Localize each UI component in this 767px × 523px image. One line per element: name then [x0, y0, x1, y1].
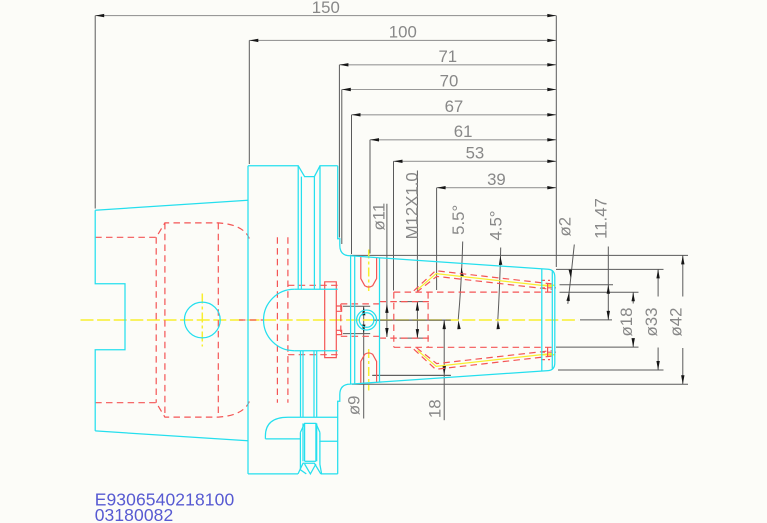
svg-text:71: 71	[438, 47, 457, 66]
svg-text:11.47: 11.47	[591, 198, 610, 239]
svg-text:ø2: ø2	[555, 217, 574, 237]
svg-text:53: 53	[466, 144, 485, 163]
svg-text:150: 150	[312, 0, 340, 17]
svg-text:39: 39	[487, 170, 506, 189]
svg-text:100: 100	[389, 23, 417, 42]
svg-text:18: 18	[425, 399, 444, 418]
svg-text:5.5°: 5.5°	[449, 205, 468, 235]
svg-text:ø9: ø9	[344, 396, 363, 416]
svg-text:4.5°: 4.5°	[487, 210, 506, 240]
svg-text:ø18: ø18	[617, 308, 636, 337]
svg-text:ø33: ø33	[642, 308, 661, 337]
svg-text:ø42: ø42	[667, 308, 686, 337]
svg-text:70: 70	[440, 72, 459, 91]
svg-text:ø11: ø11	[369, 203, 388, 231]
svg-text:61: 61	[454, 122, 473, 141]
svg-text:03180082: 03180082	[95, 505, 174, 523]
svg-text:67: 67	[445, 97, 464, 116]
svg-text:M12X1.0: M12X1.0	[403, 172, 422, 239]
